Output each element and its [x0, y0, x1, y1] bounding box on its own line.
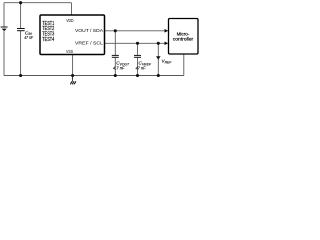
svg-text:VREF / SCL: VREF / SCL	[75, 41, 103, 46]
wire C_IN top vertical	[20, 3, 22, 29]
label C_IN value	[24, 30, 33, 40]
label C_VREF value	[136, 61, 152, 71]
wire C_IN bottom vertical	[20, 31, 22, 76]
svg-text:controller: controller	[173, 37, 194, 42]
battery supply	[1, 27, 8, 31]
wire C_VOUT vertical	[114, 31, 116, 76]
wire battery bottom vertical	[3, 31, 5, 75]
svg-text:TEST4: TEST4	[42, 37, 54, 43]
label C_VOUT value	[113, 61, 130, 71]
node junction VREF wire V_REF tap	[157, 42, 160, 45]
microcontroller box	[169, 19, 199, 55]
node junction rail C_VREF	[136, 74, 139, 77]
IC box sensor	[40, 15, 105, 55]
wire C_VREF vertical	[137, 43, 139, 75]
capacitor C_VREF	[134, 55, 141, 57]
svg-text:4.7 nF: 4.7 nF	[113, 65, 126, 70]
arrow into microcontroller SDA	[165, 29, 169, 33]
wire top rail	[4, 2, 72, 4]
capacitor C_IN	[17, 29, 25, 31]
node junction top rail	[19, 1, 22, 4]
wire bottom rail	[4, 75, 184, 77]
node junction rail VSS	[71, 74, 74, 77]
wire VDD pin	[71, 3, 73, 16]
svg-text:VOUT / SDA: VOUT / SDA	[75, 28, 104, 33]
wire microcontroller ground pin	[183, 54, 185, 76]
wire VREF node to ground rail	[157, 43, 159, 75]
wire VREF/SCL to microcontroller	[105, 42, 166, 44]
svg-text:47 nF: 47 nF	[136, 65, 147, 70]
node junction rail V_REF	[157, 74, 160, 77]
node junction VOUT wire	[114, 29, 117, 32]
node V_REF arrow	[156, 56, 161, 60]
node junction rail C_IN	[19, 74, 22, 77]
svg-text:VREF: VREF	[161, 59, 172, 65]
capacitor C_VOUT	[112, 55, 119, 57]
wire battery top vertical	[3, 3, 5, 27]
arrow into microcontroller SCL	[165, 42, 169, 46]
wire VSS pin	[72, 55, 74, 76]
svg-text:VDD: VDD	[66, 18, 73, 23]
node junction VREF wire C_VREF	[136, 42, 139, 45]
wire VOUT/SDA to microcontroller	[105, 30, 166, 32]
node junction rail C_VOUT	[114, 74, 117, 77]
ground	[72, 76, 74, 82]
svg-text:47 nF: 47 nF	[24, 35, 33, 40]
svg-text:VSS: VSS	[66, 49, 73, 54]
